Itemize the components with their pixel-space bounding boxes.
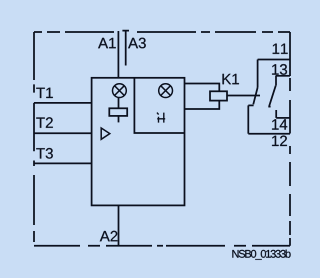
wire box to relay coil (upper) (185, 84, 220, 92)
wire below threshold element (118, 116, 120, 123)
wire terminal 14 (276, 117, 290, 119)
relay coil K1 (210, 91, 227, 100)
wire lamp to threshold element (118, 98, 120, 109)
amplifier triangle (101, 128, 110, 139)
label A1 (98, 38, 116, 48)
dashed enclosure border bottom (34, 245, 290, 247)
contact arm 13-14 (open) (269, 86, 276, 106)
threshold element (box symbol) (109, 108, 127, 116)
figure reference NSB0_01333b (232, 250, 290, 260)
lamp H2 (output indicator) (159, 84, 173, 98)
wire terminal 13 (276, 75, 290, 77)
contact 14 fixed stub (275, 110, 277, 118)
label T1 (36, 88, 53, 98)
label terminal 12 (272, 136, 287, 147)
wire terminal 12 (248, 133, 290, 135)
contact arm 11-12 (closed) (253, 88, 257, 105)
wire relay coil to box (lower) (185, 101, 220, 109)
contact jog to 12 branch (248, 104, 253, 106)
output relay compartment (sub-box) (134, 78, 184, 133)
dashed enclosure border top (34, 31, 290, 33)
label terminal 14 (272, 119, 287, 129)
main device box (92, 78, 185, 206)
label A3 (128, 38, 146, 49)
label terminal 11 (273, 44, 288, 54)
wire terminal 11 (258, 59, 290, 61)
terminal A1 supply line (117, 31, 119, 78)
wire T3 (34, 162, 92, 164)
wire 11 to contact (257, 60, 259, 88)
lamp H1 (supply indicator) (113, 84, 127, 98)
label A2 (100, 231, 118, 242)
relay glyph in sub-box (157, 113, 165, 123)
terminal A3 supply line (122, 31, 129, 66)
contact 13 fixed stub (275, 76, 277, 86)
dashed enclosure border right (289, 32, 291, 246)
wire T2 (34, 132, 92, 134)
label T2 (36, 117, 53, 128)
label terminal 13 (272, 64, 287, 75)
mechanical link K1 to contacts (227, 95, 260, 97)
dashed enclosure border left (33, 32, 35, 242)
label K1 (223, 74, 239, 84)
wire contact to 12 (247, 105, 249, 133)
label T3 (36, 148, 53, 159)
contact arm hook (268, 106, 270, 108)
wire A2 (118, 205, 120, 245)
wire T1 (34, 102, 92, 104)
